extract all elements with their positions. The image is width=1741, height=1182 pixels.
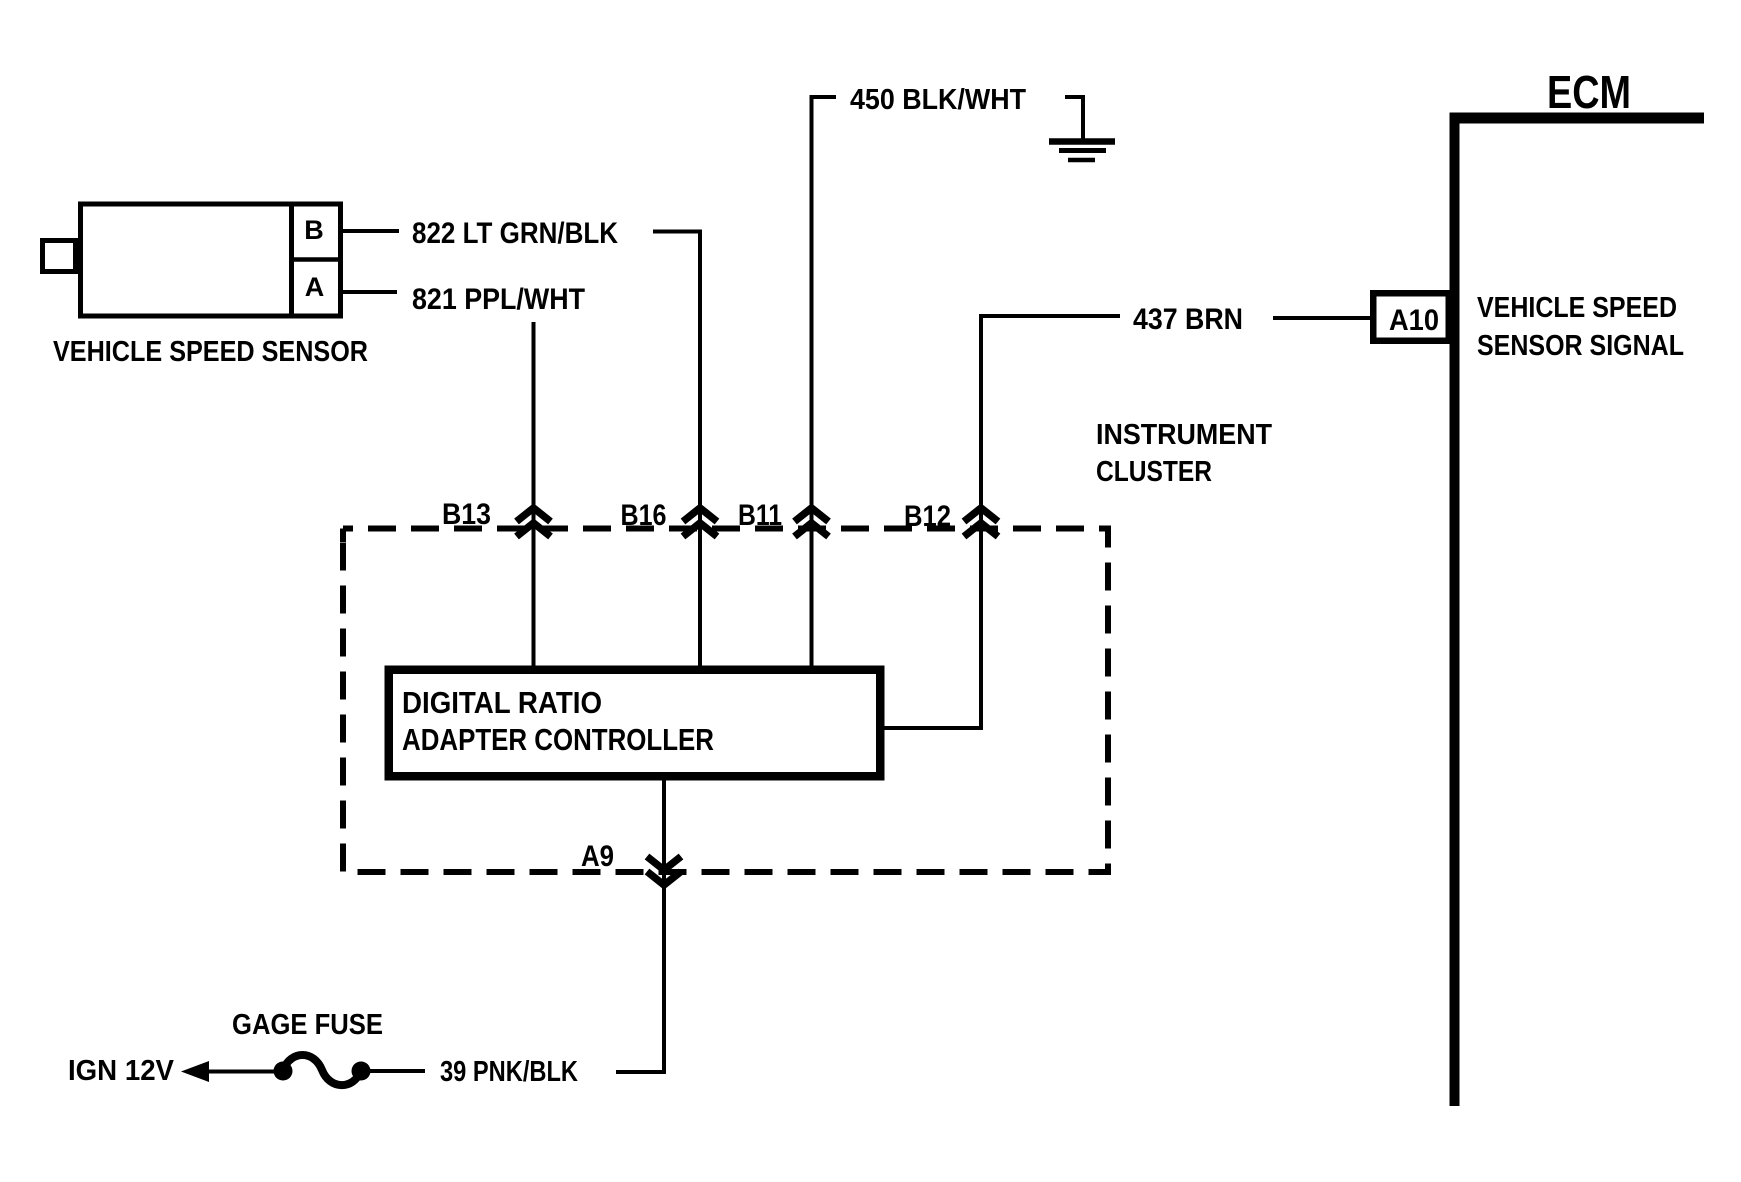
svg-text:437 BRN: 437 BRN [1133,303,1243,336]
svg-text:IGN 12V: IGN 12V [68,1055,175,1087]
svg-text:B16: B16 [621,499,667,532]
svg-text:VEHICLE SPEED: VEHICLE SPEED [1477,292,1677,324]
svg-text:450 BLK/WHT: 450 BLK/WHT [850,84,1026,116]
svg-text:SENSOR SIGNAL: SENSOR SIGNAL [1477,330,1684,362]
svg-text:A10: A10 [1389,304,1439,337]
svg-text:A: A [305,272,325,302]
svg-text:INSTRUMENT: INSTRUMENT [1096,419,1272,451]
svg-text:A9: A9 [581,840,614,873]
svg-text:CLUSTER: CLUSTER [1096,456,1212,488]
svg-text:B12: B12 [904,500,951,533]
svg-text:ECM: ECM [1547,66,1631,118]
svg-text:39 PNK/BLK: 39 PNK/BLK [440,1056,578,1088]
svg-text:VEHICLE SPEED SENSOR: VEHICLE SPEED SENSOR [53,336,368,368]
svg-text:ADAPTER CONTROLLER: ADAPTER CONTROLLER [402,722,714,757]
svg-text:821 PPL/WHT: 821 PPL/WHT [412,283,585,316]
svg-text:B: B [304,215,324,245]
svg-text:GAGE FUSE: GAGE FUSE [232,1009,383,1041]
svg-text:B11: B11 [738,499,782,532]
svg-text:DIGITAL RATIO: DIGITAL RATIO [402,685,602,720]
svg-text:B13: B13 [442,498,491,531]
svg-text:822 LT GRN/BLK: 822 LT GRN/BLK [412,217,618,250]
